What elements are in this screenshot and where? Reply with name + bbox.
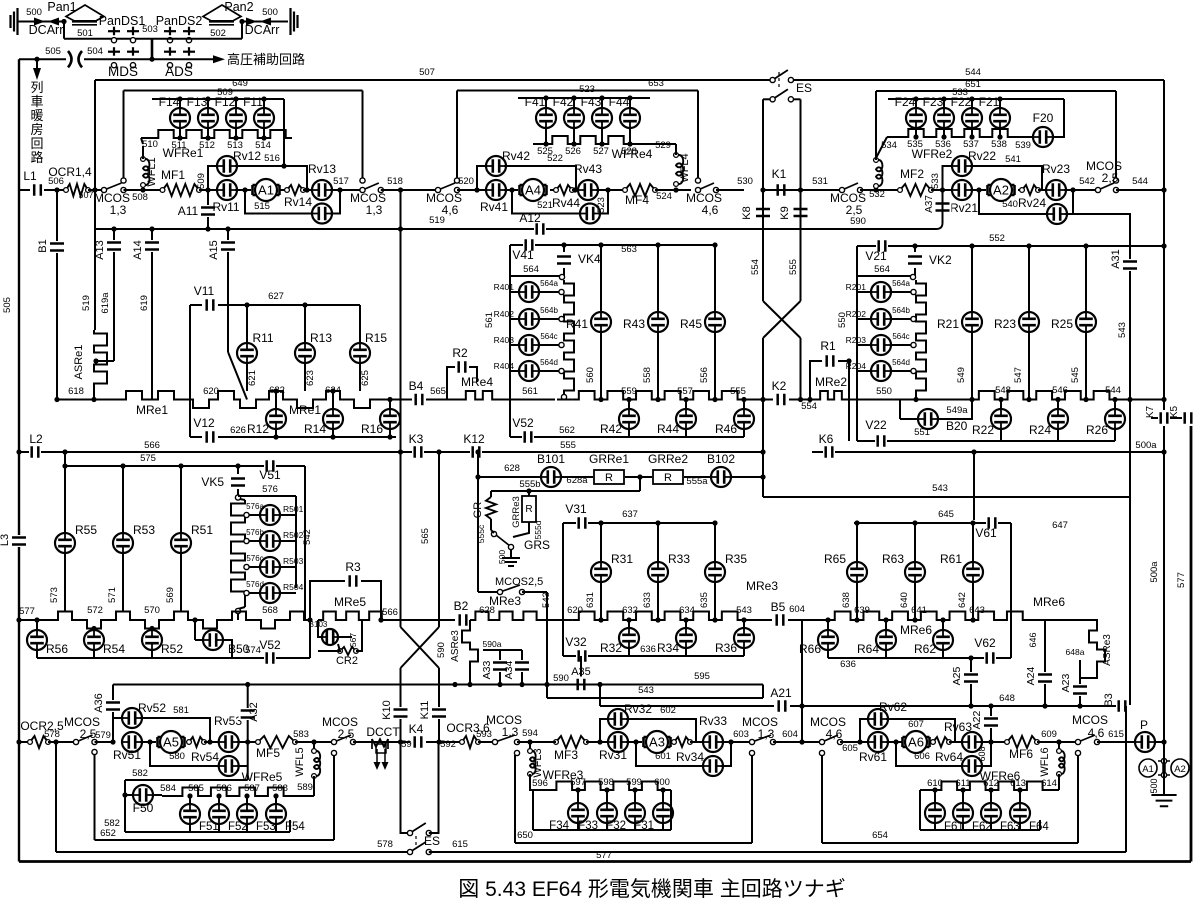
reverser contactor Rv33 bbox=[703, 732, 723, 752]
terminal MCOS1,3 a upper bbox=[121, 178, 126, 183]
grid resistor WFRe3 meander bbox=[550, 782, 671, 791]
field contactor F61 bbox=[925, 803, 945, 823]
switch MCOS1,3 c bbox=[492, 734, 520, 745]
node 583 bbox=[311, 739, 316, 744]
svg-text:Rv64: Rv64 bbox=[935, 750, 963, 764]
wire 648 bbox=[790, 705, 1125, 707]
svg-text:549: 549 bbox=[956, 367, 967, 383]
wire R41 top lead bbox=[600, 245, 602, 312]
wire R204 right bbox=[891, 370, 911, 372]
svg-text:F24: F24 bbox=[895, 95, 916, 109]
wire WFL3 top bbox=[529, 742, 531, 750]
wire B3 down bbox=[1125, 706, 1127, 852]
svg-text:619a: 619a bbox=[100, 292, 111, 314]
svg-text:R16: R16 bbox=[361, 422, 383, 436]
wire 541 bypass right bbox=[970, 166, 1042, 190]
svg-text:B102: B102 bbox=[707, 452, 735, 466]
wire 519/590 bbox=[95, 228, 936, 230]
svg-text:612: 612 bbox=[983, 778, 999, 789]
node 628 bbox=[475, 474, 480, 479]
relay CR2 bbox=[338, 647, 359, 655]
terminal MCOS1,3 b upper bbox=[360, 178, 365, 183]
wire 615 bbox=[1097, 741, 1135, 743]
wire R501 left bbox=[249, 514, 260, 516]
node Rv64 tap bbox=[893, 739, 898, 744]
wire R33 top lead bbox=[657, 523, 659, 562]
svg-text:WFL6: WFL6 bbox=[1039, 747, 1051, 776]
field contactor F51 bbox=[180, 804, 200, 824]
svg-text:619: 619 bbox=[139, 295, 150, 311]
switch MCOS4,6 a bbox=[435, 182, 460, 193]
wire 579 bbox=[95, 741, 114, 743]
svg-text:502: 502 bbox=[210, 28, 226, 39]
chopper contactor R16 bbox=[380, 409, 400, 429]
wire R503 right bbox=[280, 566, 296, 568]
svg-text:577: 577 bbox=[19, 606, 35, 617]
grid resistor WFRe5 meander bbox=[176, 788, 314, 797]
wire 601 bypass bbox=[636, 742, 705, 766]
wire F41 bottom lead bbox=[545, 128, 547, 144]
svg-text:R53: R53 bbox=[133, 523, 155, 537]
svg-text:V51: V51 bbox=[259, 468, 281, 482]
wire A4-zz bbox=[550, 189, 556, 191]
wire R3 bypass left bbox=[310, 581, 345, 620]
motor field A1 bbox=[1139, 759, 1157, 777]
wire F62 bottom lead bbox=[962, 823, 964, 830]
wire R24 bottom lead bbox=[1057, 429, 1059, 441]
wire R504 right bbox=[280, 592, 296, 594]
chopper contactor R35 bbox=[705, 562, 725, 582]
wire 578 bbox=[48, 741, 76, 743]
chopper contactor R33 bbox=[648, 562, 668, 582]
svg-text:Rv33: Rv33 bbox=[699, 714, 727, 728]
wire Pan1 drop bbox=[63, 22, 65, 39]
node 544 right bbox=[1161, 397, 1166, 402]
chopper contactor R43 bbox=[648, 312, 668, 332]
battery contactor B50 bbox=[203, 630, 223, 650]
wire R203 right bbox=[891, 344, 911, 346]
traction motor A1 bbox=[253, 179, 280, 201]
arrester gap right bbox=[246, 18, 271, 26]
wire bottom border bbox=[19, 860, 1191, 863]
grid resistor WFRe6 meander bbox=[935, 782, 1059, 791]
svg-text:R66: R66 bbox=[799, 642, 821, 656]
reverser contactor Rv62 bbox=[868, 709, 888, 729]
field weakening coil WFL4 bbox=[674, 153, 684, 187]
wire to B5 bbox=[755, 619, 772, 621]
field diverter F43 bbox=[592, 108, 612, 128]
wire to MF3 bbox=[540, 741, 556, 743]
node R41 top bbox=[598, 242, 603, 247]
svg-text:628: 628 bbox=[504, 463, 520, 474]
node B102 rail bbox=[760, 474, 765, 479]
svg-text:高圧補助回路: 高圧補助回路 bbox=[227, 52, 305, 67]
wire VK4 chain bottom bbox=[563, 392, 565, 395]
svg-text:MCOS: MCOS bbox=[1072, 713, 1108, 727]
wire F32 bottom lead bbox=[634, 823, 636, 830]
svg-text:A1: A1 bbox=[258, 183, 274, 198]
svg-text:564d: 564d bbox=[892, 358, 910, 367]
field diverter F22 bbox=[962, 108, 982, 128]
contactor A34 bbox=[513, 660, 531, 672]
wire F42 top lead bbox=[573, 98, 575, 108]
svg-text:571: 571 bbox=[107, 587, 118, 603]
svg-text:642: 642 bbox=[957, 592, 968, 608]
svg-text:519: 519 bbox=[429, 215, 445, 226]
wire R16 bottom lead bbox=[389, 429, 391, 437]
node 511 bbox=[177, 135, 182, 140]
svg-text:Rv43: Rv43 bbox=[574, 162, 602, 176]
grid resistor ASRe3 right bbox=[1089, 627, 1105, 672]
wire to A2 bbox=[970, 189, 986, 191]
wire rail 523 F4x bbox=[518, 97, 650, 99]
terminal 568b bbox=[235, 608, 240, 613]
svg-text:576d: 576d bbox=[246, 580, 264, 589]
grid resistor MRe2 bbox=[817, 391, 845, 400]
wire R501 right bbox=[280, 514, 296, 516]
node F50 bbox=[122, 792, 127, 797]
node Rv44 tap bbox=[509, 187, 514, 192]
wire 653 left drop bbox=[456, 91, 458, 179]
svg-text:R201: R201 bbox=[846, 282, 867, 292]
svg-text:640: 640 bbox=[899, 592, 910, 608]
svg-text:558: 558 bbox=[642, 367, 653, 383]
svg-text:Rv32: Rv32 bbox=[624, 702, 652, 716]
svg-text:604: 604 bbox=[789, 604, 805, 615]
wire A1-zz bbox=[280, 189, 287, 191]
wire WFRe6 left bbox=[919, 790, 921, 830]
vernier contactor R404 bbox=[519, 361, 539, 381]
wire F62 top lead bbox=[962, 790, 964, 803]
node 518 bbox=[398, 187, 403, 192]
wire R404 right bbox=[539, 370, 559, 372]
contactor A37 bbox=[934, 201, 952, 213]
svg-text:ADS: ADS bbox=[165, 64, 193, 79]
svg-text:564a: 564a bbox=[892, 279, 910, 288]
wire VK5 top bbox=[237, 466, 239, 474]
wire V12 left bbox=[190, 436, 202, 438]
chopper contactor R42 bbox=[619, 409, 639, 429]
node F21 rail bbox=[997, 96, 1002, 101]
svg-text:ASRe3: ASRe3 bbox=[450, 630, 461, 662]
chopper contactor R65 bbox=[847, 562, 867, 582]
node VK2 bottom bbox=[913, 397, 918, 402]
svg-text:501: 501 bbox=[77, 28, 93, 39]
wire 594 bbox=[517, 741, 540, 743]
field contactor F34 bbox=[568, 803, 588, 823]
svg-text:563: 563 bbox=[621, 244, 637, 255]
svg-text:WFRe4: WFRe4 bbox=[612, 147, 653, 161]
node A13 bbox=[111, 226, 116, 231]
svg-text:F41: F41 bbox=[525, 95, 546, 109]
switch MCOS1,3 a bbox=[101, 182, 127, 193]
svg-text:Rv44: Rv44 bbox=[552, 196, 580, 210]
wire chain bottom link bbox=[238, 607, 245, 609]
svg-text:MCOS2,5: MCOS2,5 bbox=[495, 576, 543, 588]
svg-text:Rv41: Rv41 bbox=[480, 200, 508, 214]
svg-text:582: 582 bbox=[132, 768, 148, 779]
svg-text:604: 604 bbox=[782, 729, 798, 740]
svg-text:R51: R51 bbox=[191, 523, 213, 537]
field contactor F62 bbox=[953, 803, 973, 823]
wire 582 bottom bbox=[125, 831, 290, 833]
svg-text:552: 552 bbox=[989, 233, 1005, 244]
wire R21 top lead bbox=[971, 246, 973, 312]
wire F14 bottom lead bbox=[179, 128, 181, 138]
current transformer DCCT bbox=[372, 739, 389, 770]
node GRRe3 bbox=[526, 488, 531, 493]
svg-text:暖: 暖 bbox=[30, 108, 43, 123]
svg-text:582: 582 bbox=[104, 818, 120, 829]
svg-text:Rv54: Rv54 bbox=[191, 750, 219, 764]
contactor A22 bbox=[982, 716, 1000, 728]
field diverter F21 bbox=[990, 108, 1010, 128]
wire R23 bottom lead bbox=[1028, 332, 1030, 400]
node F52 top bbox=[216, 793, 221, 798]
contactor V51 bbox=[264, 458, 276, 474]
wire F61 bottom lead bbox=[934, 823, 936, 830]
wire F52 top lead bbox=[218, 796, 220, 804]
svg-text:543: 543 bbox=[1117, 322, 1128, 338]
wire R61 top lead bbox=[972, 523, 974, 562]
node R65 top bbox=[854, 520, 859, 525]
node 590 cross452 bbox=[398, 449, 403, 454]
terminal MCOS f down bbox=[749, 750, 754, 755]
wire X cross b bbox=[401, 627, 440, 668]
svg-text:564a: 564a bbox=[540, 279, 558, 288]
switch GRS blade bbox=[496, 535, 510, 546]
svg-text:541: 541 bbox=[1005, 154, 1021, 165]
svg-text:MF4: MF4 bbox=[625, 193, 649, 207]
wire 654 bbox=[822, 842, 1078, 844]
svg-text:R44: R44 bbox=[657, 422, 679, 436]
wire F53 bottom lead bbox=[246, 824, 248, 832]
svg-text:542: 542 bbox=[1079, 176, 1095, 187]
terminal 564 r2x bbox=[910, 274, 915, 279]
svg-text:545: 545 bbox=[1070, 367, 1081, 383]
wire F54 bottom lead bbox=[275, 824, 277, 832]
wire 555b drop bbox=[639, 477, 641, 491]
wire ASRe3l bottom bbox=[469, 672, 471, 685]
svg-text:Rv62: Rv62 bbox=[879, 700, 907, 714]
wire VK4 bottom bbox=[563, 268, 565, 276]
wire Rv64 up bbox=[980, 742, 991, 766]
wire 555 mid bbox=[800, 190, 802, 301]
svg-text:B20: B20 bbox=[946, 419, 968, 433]
svg-text:A13: A13 bbox=[94, 240, 106, 260]
wire R65 top lead bbox=[856, 523, 858, 562]
node R26 top bbox=[1112, 397, 1117, 402]
svg-text:584: 584 bbox=[160, 783, 176, 794]
svg-text:636: 636 bbox=[840, 659, 856, 670]
terminal 561b bbox=[561, 394, 566, 399]
svg-text:A21: A21 bbox=[770, 686, 792, 700]
chopper contactor R12 bbox=[266, 409, 286, 429]
wire 592 bbox=[426, 741, 462, 743]
wire 590 long bbox=[113, 684, 763, 686]
svg-text:625: 625 bbox=[360, 370, 371, 386]
wire stub bbox=[55, 839, 57, 841]
node A34 bottom bbox=[519, 682, 524, 687]
contactor K1 bbox=[775, 182, 787, 198]
svg-text:PanDS2: PanDS2 bbox=[156, 14, 203, 28]
svg-text:Rv52: Rv52 bbox=[138, 701, 166, 715]
svg-text:579: 579 bbox=[95, 730, 111, 741]
wire F31 top lead bbox=[662, 790, 664, 803]
wire 649 bbox=[124, 90, 363, 92]
svg-text:527: 527 bbox=[593, 146, 609, 157]
wire 604 drop bbox=[801, 620, 803, 742]
svg-text:555d: 555d bbox=[533, 520, 543, 539]
svg-text:603: 603 bbox=[733, 729, 749, 740]
field weakening coil WFL5 bbox=[312, 749, 321, 779]
wire 506 bbox=[44, 189, 66, 191]
wire WFRe3 lead bbox=[533, 789, 550, 791]
svg-text:547: 547 bbox=[1013, 367, 1024, 383]
svg-text:V52: V52 bbox=[512, 416, 534, 430]
contactor B3 bbox=[1116, 698, 1128, 714]
svg-text:564: 564 bbox=[874, 264, 890, 275]
wire WFL1 top bbox=[142, 146, 144, 159]
wire R401 right bbox=[539, 291, 559, 293]
svg-text:525: 525 bbox=[537, 146, 553, 157]
svg-text:518: 518 bbox=[387, 176, 403, 187]
switch ES bottom lower bbox=[407, 840, 432, 855]
wire 554 lower bbox=[800, 338, 802, 400]
vernier contactor R203 bbox=[871, 335, 891, 355]
svg-text:562: 562 bbox=[559, 425, 575, 436]
wire 561 bbox=[496, 399, 555, 401]
svg-text:房: 房 bbox=[30, 122, 43, 137]
wire 575 drop bbox=[64, 452, 66, 466]
node 565 top bbox=[436, 449, 441, 454]
node A14 bbox=[149, 226, 154, 231]
wire 541 bypass left bbox=[943, 166, 954, 190]
svg-text:4,6: 4,6 bbox=[702, 203, 719, 217]
wire 555 upper vertical bbox=[800, 99, 802, 190]
svg-text:523: 523 bbox=[579, 84, 595, 95]
svg-text:546: 546 bbox=[1052, 385, 1068, 396]
node K11 bottom bbox=[436, 739, 441, 744]
svg-text:635: 635 bbox=[699, 592, 710, 608]
svg-text:R14: R14 bbox=[304, 422, 326, 436]
switch MCOS4,6 b bbox=[695, 182, 719, 193]
wire B103 left bbox=[318, 620, 322, 637]
field contactor F32 bbox=[625, 803, 645, 823]
wire K11 vertical bbox=[438, 668, 440, 742]
wire 555c bbox=[490, 519, 492, 530]
node A3 entry bbox=[597, 739, 602, 744]
wire 627 bbox=[218, 304, 360, 306]
svg-text:632: 632 bbox=[622, 605, 638, 616]
wire R402 right bbox=[539, 318, 559, 320]
node WFL3 bbox=[527, 739, 532, 744]
motor field resistor MF1 bbox=[160, 184, 201, 196]
wire 500 left bbox=[18, 21, 64, 23]
svg-text:VK5: VK5 bbox=[201, 475, 224, 489]
wire F44 top lead bbox=[629, 98, 631, 108]
wire 615 bottom bbox=[429, 851, 1126, 853]
wire to A1 bbox=[235, 189, 251, 191]
terminal 564d r bbox=[911, 368, 916, 373]
wire 566/555 line bbox=[19, 451, 763, 453]
svg-text:CR2: CR2 bbox=[336, 655, 358, 667]
svg-text:Rv31: Rv31 bbox=[599, 748, 627, 762]
wire R34 bottom lead bbox=[685, 648, 687, 656]
wire chain join bbox=[563, 398, 565, 401]
svg-text:550: 550 bbox=[876, 386, 892, 397]
switch MDS pole1 bbox=[108, 47, 120, 68]
svg-text:544: 544 bbox=[965, 67, 981, 78]
contactor V52 bbox=[264, 650, 276, 666]
chopper contactor R53 bbox=[113, 533, 133, 553]
wire R16 top lead bbox=[389, 400, 391, 410]
node 532 bbox=[873, 187, 878, 192]
vernier contactor R202 bbox=[871, 309, 891, 329]
wire F64 bottom lead bbox=[1019, 823, 1021, 830]
battery contactor B20 bbox=[918, 409, 938, 429]
svg-text:R12: R12 bbox=[247, 422, 269, 436]
svg-text:652: 652 bbox=[100, 828, 116, 839]
node R56 top bbox=[34, 617, 39, 622]
node F43 rail bbox=[599, 95, 604, 100]
wire to ASRe3 right bbox=[1045, 620, 1097, 627]
wire R15 top bbox=[359, 305, 361, 343]
arrow train heating bbox=[33, 68, 41, 80]
svg-text:B3: B3 bbox=[1103, 693, 1115, 706]
svg-text:MF5: MF5 bbox=[256, 746, 280, 760]
wire 550 left rail bbox=[856, 246, 858, 400]
wire WFRe2 lead bbox=[887, 136, 902, 138]
node R31 top bbox=[598, 520, 603, 525]
wire B1 vertical bbox=[56, 190, 58, 400]
svg-text:564c: 564c bbox=[540, 332, 557, 341]
wire Rv44 up bbox=[598, 190, 608, 214]
grid resistor MRe1 meander bbox=[57, 391, 410, 408]
svg-text:R503: R503 bbox=[283, 556, 304, 566]
node B50 bbox=[192, 617, 197, 622]
node R16 bottom bbox=[387, 434, 392, 439]
node R61 top bbox=[970, 520, 975, 525]
node A11 tap bbox=[205, 187, 210, 192]
switch ES lower bbox=[770, 87, 794, 102]
svg-text:R203: R203 bbox=[846, 335, 867, 345]
svg-text:WFRe1: WFRe1 bbox=[163, 146, 204, 160]
wire R22 top lead bbox=[1000, 400, 1002, 410]
wire A5-zz bbox=[188, 741, 189, 743]
svg-text:R32: R32 bbox=[600, 641, 622, 655]
wire R203 left bbox=[857, 344, 871, 346]
chopper contactor R36 bbox=[734, 628, 754, 648]
svg-text:MRe1: MRe1 bbox=[289, 403, 321, 417]
svg-text:R404: R404 bbox=[494, 361, 515, 371]
node R35 bottom bbox=[712, 617, 717, 622]
svg-text:WFRe2: WFRe2 bbox=[912, 147, 953, 161]
svg-text:K6: K6 bbox=[819, 432, 834, 446]
wire 604 bbox=[788, 619, 800, 621]
reverser contactor Rv51 bbox=[122, 732, 142, 752]
svg-text:K1: K1 bbox=[772, 167, 787, 181]
svg-text:648: 648 bbox=[999, 693, 1015, 704]
wire F11 top lead bbox=[263, 99, 265, 108]
wire B50 left bbox=[195, 639, 203, 641]
wire R45 bottom lead bbox=[714, 332, 716, 400]
wire 595 drop bbox=[599, 685, 601, 707]
wire 524 bbox=[655, 189, 691, 191]
svg-text:GRRe3: GRRe3 bbox=[511, 496, 522, 528]
grid resistor WFRe2 meander bbox=[902, 129, 1020, 137]
node left rail 742 bbox=[16, 739, 21, 744]
